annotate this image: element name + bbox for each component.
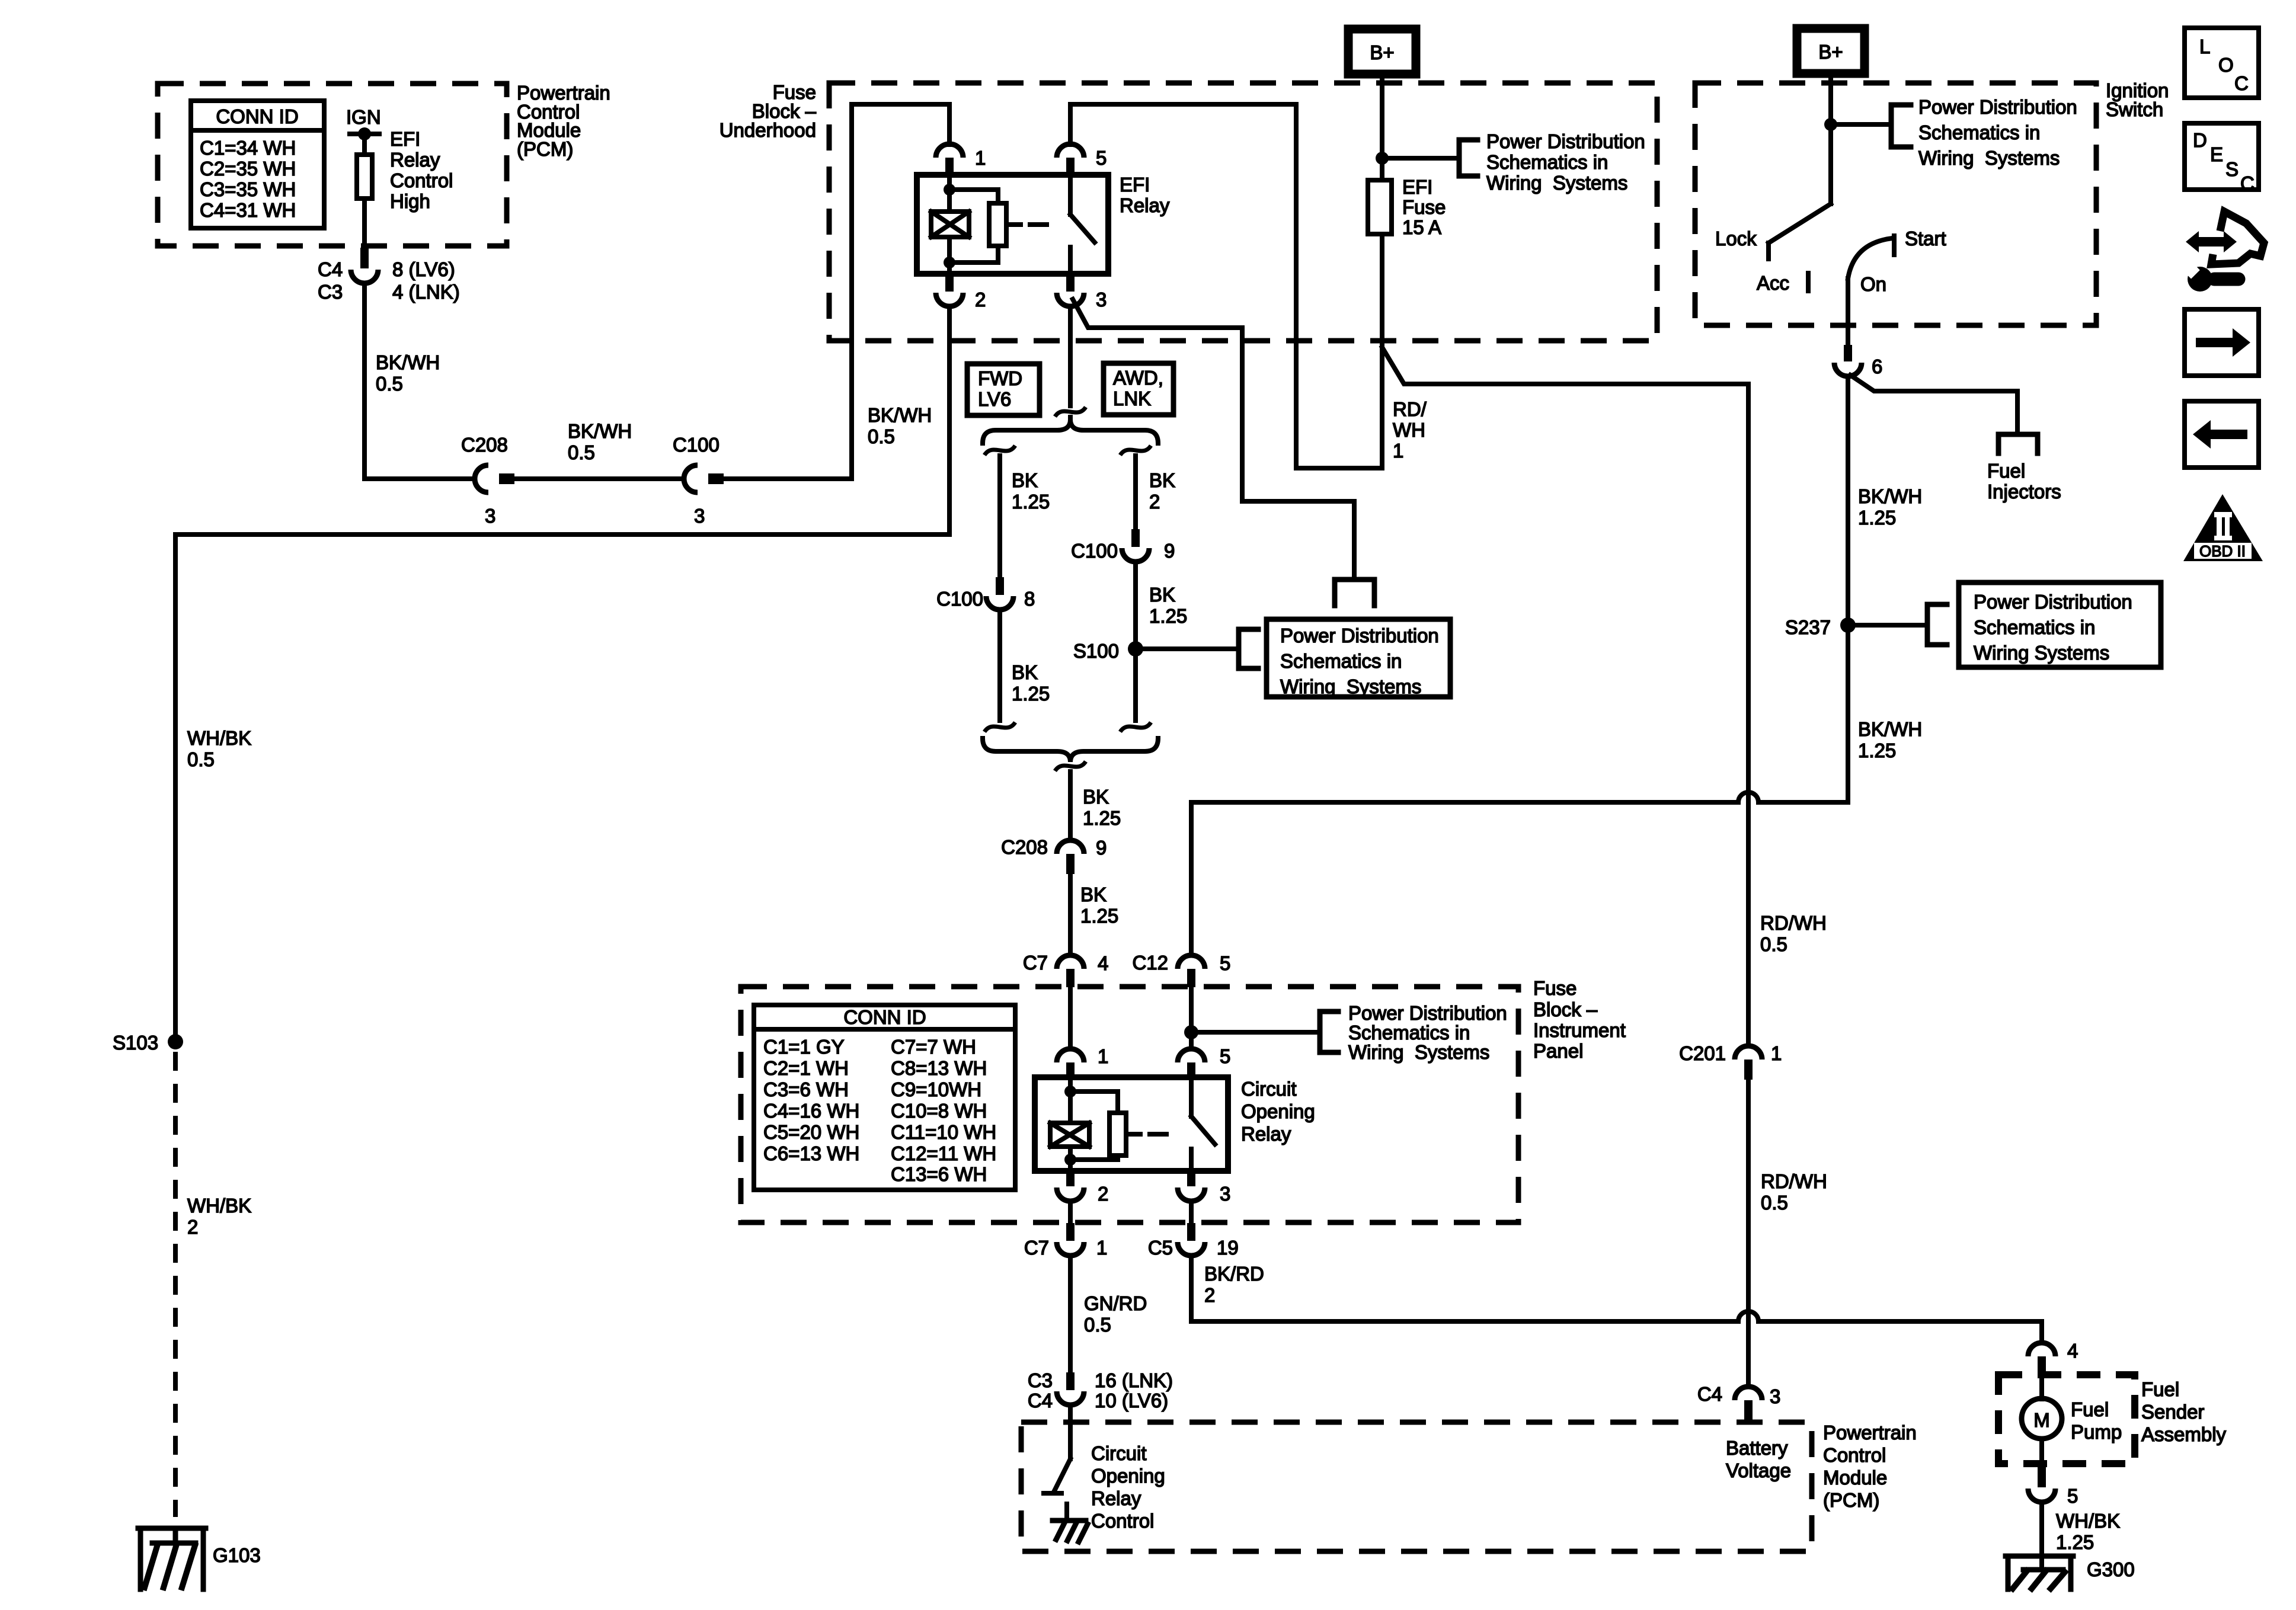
svg-text:0.5: 0.5 (1761, 1192, 1788, 1214)
svg-text:S: S (2225, 158, 2239, 180)
EFI Fuse label (1402, 176, 1446, 238)
right branch squiggle (1120, 446, 1151, 455)
svg-text:0.5: 0.5 (568, 441, 595, 463)
wire BK/WH 1.25 pin 6 to S237 (1846, 376, 1850, 802)
svg-text:C7=7 WH: C7=7 WH (891, 1036, 976, 1058)
svg-text:Relay: Relay (1120, 194, 1170, 216)
svg-text:C1=34 WH: C1=34 WH (200, 137, 296, 159)
connector EFI relay pin 3 (1057, 274, 1084, 306)
svg-text:OBD II: OBD II (2199, 542, 2246, 560)
wire brace to C208-9 (BK 1.25) (1068, 772, 1073, 840)
svg-text:9: 9 (1164, 540, 1175, 562)
svg-text:2: 2 (1149, 491, 1160, 513)
CO relay suppression resistor branch (1070, 1092, 1118, 1113)
wire EFI relay pin 2 to S103 (WH/BK 0.5) (175, 306, 949, 1035)
LOC navigation icon box (2185, 28, 2259, 98)
Power Distribution reference box (S237) (1959, 582, 2161, 667)
right branch bottom squiggle (1120, 722, 1151, 732)
wire tap to power distribution reference (1389, 156, 1459, 161)
wire left branch (BK 1.25) (997, 456, 1002, 577)
Ignition Switch dashed box (1695, 83, 2096, 325)
svg-text:Circuit: Circuit (1241, 1078, 1297, 1100)
svg-text:Schematics in: Schematics in (1918, 121, 2040, 143)
CO relay switch fixed contact (1189, 1077, 1194, 1116)
AWD LNK option box (1104, 363, 1173, 415)
ground G103 (138, 1528, 206, 1589)
wire B+ to EFI fuse (1380, 74, 1384, 180)
off-page bracket (S237 power distribution) (1927, 604, 1947, 645)
CO relay coil (crossed box) (1050, 1123, 1089, 1147)
svg-text:Fuse: Fuse (1533, 977, 1576, 999)
svg-text:GN/RD: GN/RD (1084, 1292, 1147, 1314)
svg-text:CONN ID: CONN ID (843, 1006, 926, 1028)
wire feed to EFI relay pin 1 (947, 104, 952, 145)
wire S237 down and left to C12-5 (1758, 633, 1848, 802)
Acc contact tick (1806, 273, 1811, 291)
svg-text:C3: C3 (318, 281, 343, 303)
connector C100 labels (673, 434, 720, 527)
connector C7 pin 4 labels (1023, 952, 1109, 974)
connector C208 pin 3 (in-line) (475, 465, 514, 492)
svg-text:(PCM): (PCM) (517, 138, 573, 160)
B+ terminal box (ignition switch) (1797, 28, 1865, 73)
connector C12 pin 5 (1178, 955, 1205, 987)
svg-text:S103: S103 (113, 1032, 158, 1054)
wire S237 to reference bracket (1856, 623, 1927, 628)
FWD LV6 option box (967, 364, 1040, 415)
svg-text:0.5: 0.5 (868, 425, 895, 447)
svg-text:Opening: Opening (1241, 1100, 1315, 1122)
back arrow icon box (2185, 401, 2259, 468)
resistor (EFI relay) (989, 203, 1006, 246)
svg-text:C13=6 WH: C13=6 WH (891, 1163, 987, 1185)
left branch squiggle (984, 446, 1015, 455)
svg-text:Injectors: Injectors (1987, 481, 2061, 502)
PCM bottom dashed box (1021, 1422, 1812, 1551)
svg-text:Fuel: Fuel (2141, 1378, 2179, 1400)
connector EFI relay pin 2 (936, 274, 963, 306)
svg-text:Power Distribution: Power Distribution (1918, 96, 2077, 118)
svg-text:Block –: Block – (1533, 998, 1598, 1020)
svg-text:C7: C7 (1023, 952, 1048, 974)
Fuel Sender Assembly label (2141, 1378, 2227, 1445)
svg-text:C1=1 GY: C1=1 GY (763, 1036, 845, 1058)
wire label RD/WH 0.5 (below C201) (1761, 1170, 1827, 1214)
connector C7 pin 4 (1057, 955, 1084, 987)
connector C100 pin 8 (986, 577, 1013, 610)
CONN ID table (instrument panel) (754, 1005, 1015, 1190)
svg-text:Control: Control (1823, 1444, 1886, 1466)
svg-text:FWD: FWD (978, 367, 1022, 389)
svg-text:C4: C4 (1028, 1390, 1053, 1411)
junction dot coil top (CO relay) (1064, 1086, 1076, 1097)
svg-text:1: 1 (1098, 1045, 1108, 1067)
wire resistor to connector C4/C3 (362, 199, 367, 248)
forward arrow icon box (2185, 309, 2259, 376)
wire WH/BK 1.25 to G300 (2039, 1502, 2044, 1570)
svg-text:Control: Control (390, 169, 453, 191)
connector C100 pin 8 labels (936, 588, 1035, 610)
ground G300 (2006, 1556, 2073, 1589)
connector C201 labels (1679, 1042, 1782, 1064)
wire label BK/WH 0.5 (PCM drop) (376, 351, 440, 395)
EFI relay suppression resistor branch (949, 190, 998, 203)
svg-text:2: 2 (187, 1216, 198, 1238)
upper option brace (983, 420, 1158, 443)
svg-text:BK/WH: BK/WH (868, 404, 932, 426)
svg-text:WH/BK: WH/BK (2056, 1510, 2120, 1532)
wire continues left to C12-5 drop (1191, 802, 1738, 955)
resistor branch bottom (CO relay) (1070, 1156, 1118, 1160)
svg-text:Lock: Lock (1715, 228, 1757, 249)
svg-text:4: 4 (1098, 952, 1108, 974)
svg-text:3: 3 (1770, 1385, 1780, 1407)
CONN ID table (PCM) (191, 101, 324, 228)
Battery Voltage label (1726, 1437, 1791, 1481)
svg-text:Sender: Sender (2141, 1401, 2204, 1423)
splice S100 (1128, 641, 1143, 657)
Fuel Injectors label (1987, 460, 2061, 502)
svg-text:C6=13 WH: C6=13 WH (763, 1142, 859, 1164)
circuit opening relay control switch blade (1054, 1459, 1070, 1492)
svg-text:LNK: LNK (1113, 388, 1151, 409)
svg-text:8: 8 (1024, 588, 1035, 610)
wire tap to reference bracket (1198, 1030, 1320, 1035)
wire IGN to resistor (362, 134, 367, 155)
Powertrain Control Module label (bottom) (1823, 1422, 1917, 1511)
svg-text:2: 2 (1204, 1284, 1215, 1306)
svg-text:C11=10 WH: C11=10 WH (891, 1121, 996, 1143)
svg-text:C: C (2240, 172, 2255, 194)
svg-text:Fuse: Fuse (1402, 196, 1446, 218)
svg-text:Relay: Relay (1091, 1487, 1141, 1509)
svg-text:5: 5 (1096, 147, 1107, 169)
svg-text:Relay: Relay (390, 149, 440, 171)
svg-text:1.25: 1.25 (1858, 507, 1896, 529)
svg-text:BK: BK (1083, 786, 1109, 808)
svg-text:4 (LNK): 4 (LNK) (392, 281, 460, 303)
wire coil bottom (947, 237, 952, 274)
svg-text:Underhood: Underhood (720, 119, 816, 141)
svg-text:1.25: 1.25 (1149, 605, 1187, 627)
CO relay coil wire bottom (1068, 1147, 1073, 1171)
svg-text:RD/WH: RD/WH (1760, 912, 1827, 934)
svg-text:C201: C201 (1679, 1042, 1726, 1064)
fuel pump motor M (2022, 1398, 2062, 1439)
svg-text:C100: C100 (936, 588, 983, 610)
svg-text:Fuel: Fuel (2071, 1398, 2109, 1420)
diagnostic icon: double arrow (2182, 212, 2264, 292)
svg-text:L: L (2199, 36, 2210, 57)
svg-text:S237: S237 (1785, 616, 1831, 638)
svg-text:C3: C3 (1028, 1369, 1053, 1391)
connector C4/C3 labels (318, 258, 460, 303)
off-page bracket (ignition power distribution) (1891, 105, 1911, 147)
EFI relay coil (crossed box) (931, 212, 969, 237)
svg-text:5: 5 (1220, 952, 1230, 974)
wire label BK 1.25 (left lower) (1012, 661, 1050, 705)
EFI Fuse 15 A (1368, 180, 1392, 234)
svg-text:C: C (2234, 72, 2249, 94)
Power Distribution reference text (ignition) (1918, 96, 2077, 169)
svg-text:1.25: 1.25 (1858, 740, 1896, 761)
svg-text:WH/BK: WH/BK (187, 1195, 251, 1217)
wire C7-4 into instrument panel block (1068, 987, 1073, 1049)
svg-text:Wiring Systems: Wiring Systems (1974, 642, 2109, 664)
ignition wiper arc (On position) (1848, 238, 1892, 279)
svg-text:High: High (390, 190, 430, 212)
Ignition Switch label (2106, 79, 2169, 120)
wire label GN/RD 0.5 (1084, 1292, 1147, 1336)
connector fuel sender pin 4 (2028, 1343, 2055, 1376)
wire B+ into ignition switch (1828, 73, 1833, 204)
svg-text:(PCM): (PCM) (1823, 1489, 1879, 1511)
svg-text:M: M (2033, 1409, 2050, 1431)
svg-text:C208: C208 (1001, 836, 1048, 858)
svg-text:3: 3 (694, 505, 705, 527)
wire label BK/WH 0.5 (C208-C100) (568, 420, 632, 463)
svg-text:Start: Start (1905, 228, 1946, 249)
svg-text:WH/BK: WH/BK (187, 727, 251, 749)
wire On contact to pin 6 (1846, 279, 1850, 345)
Circuit Opening Relay Control label (1091, 1442, 1165, 1532)
svg-text:0.5: 0.5 (1760, 933, 1787, 955)
svg-text:4: 4 (2067, 1340, 2078, 1362)
wire pin 6 branch to fuel injectors (1850, 375, 2017, 434)
EFI relay coil branch wire (947, 175, 952, 212)
svg-text:C5=20 WH: C5=20 WH (763, 1121, 859, 1143)
connector C100 pin 9 (1122, 529, 1149, 562)
wire motor to pin 5 (2039, 1439, 2044, 1467)
svg-text:C100: C100 (1071, 540, 1118, 562)
svg-text:E: E (2210, 143, 2223, 165)
svg-text:Module: Module (1823, 1467, 1887, 1489)
wire label BK 1.25 (to C208) (1083, 786, 1121, 829)
svg-text:C4: C4 (1697, 1383, 1722, 1405)
wire PCM to C208 (364, 476, 475, 481)
svg-text:Schematics in: Schematics in (1974, 616, 2095, 638)
Start contact tick (1892, 236, 1897, 255)
wire C100 to fuse block underhood (724, 104, 949, 479)
svg-text:1.25: 1.25 (1080, 905, 1118, 927)
lower option brace (983, 738, 1158, 762)
svg-text:C3=6 WH: C3=6 WH (763, 1078, 849, 1100)
wire RD/WH 1 diagonal exit (1382, 347, 1748, 1046)
svg-text:WH: WH (1393, 419, 1425, 441)
svg-text:B+: B+ (1370, 41, 1394, 63)
wire C100-8 down (BK 1.25) (997, 610, 1002, 721)
svg-text:BK: BK (1012, 469, 1038, 491)
svg-text:Pump: Pump (2071, 1421, 2122, 1443)
svg-text:Wiring Systems: Wiring Systems (1918, 147, 2060, 169)
svg-text:C10=8 WH: C10=8 WH (891, 1100, 987, 1122)
PCM module dashed box (Powertrain Control Module top-left) (158, 84, 507, 246)
svg-text:O: O (2218, 54, 2234, 76)
wire right branch (BK 2) (1133, 456, 1138, 529)
connector EFI relay pin 1 (936, 144, 963, 175)
svg-text:BK: BK (1149, 584, 1175, 606)
junction dot feed tap (1184, 1025, 1198, 1039)
svg-text:BK: BK (1080, 884, 1107, 905)
svg-text:Opening: Opening (1091, 1465, 1165, 1487)
junction dot ignition feed (1824, 118, 1837, 131)
svg-text:1.25: 1.25 (2056, 1531, 2094, 1553)
resistor EFI Relay Control High driver (inside PCM) (357, 155, 372, 199)
blade end tick (1044, 1491, 1061, 1496)
svg-text:Schematics in: Schematics in (1348, 1022, 1470, 1044)
svg-text:LV6: LV6 (978, 388, 1011, 410)
svg-text:RD/WH: RD/WH (1761, 1170, 1827, 1192)
svg-text:Power Distribution: Power Distribution (1486, 130, 1645, 152)
wire C208-9 to C7-4 (BK 1.25) (1068, 874, 1073, 955)
connector C12 pin 5 labels (1132, 952, 1230, 974)
wire label RD/WH 0.5 (above C201) (1760, 912, 1827, 955)
wire GN/RD 0.5 C7-1 to PCM (1068, 1256, 1073, 1372)
svg-text:5: 5 (2067, 1485, 2078, 1507)
node IGN terminal tick and junction (350, 127, 379, 140)
svg-text:1: 1 (1393, 440, 1403, 462)
connector C7 pin 1 labels (1024, 1237, 1108, 1259)
Power Distribution reference text (top) (1486, 130, 1645, 194)
connector EFI relay pin 5 (1057, 144, 1084, 175)
Fuse Block Underhood label (720, 81, 817, 141)
svg-text:1: 1 (975, 147, 986, 169)
svg-text:9: 9 (1096, 837, 1107, 859)
wire label BK/WH 0.5 (into fuse block) (868, 404, 932, 447)
svg-text:Schematics in: Schematics in (1486, 151, 1608, 173)
svg-text:BK/WH: BK/WH (376, 351, 440, 373)
wire hop over RD/WH vertical (1738, 1311, 1758, 1321)
connector ignition pin 6 (1834, 345, 1862, 376)
connector C4/C3 pin 8(LV6)/4(LNK) (351, 248, 378, 283)
Circuit Opening Relay label (1241, 1078, 1315, 1145)
wire label BK 1.25 (left upper) (1012, 469, 1050, 513)
EFI relay switch lower contact (1068, 247, 1073, 274)
svg-text:C4: C4 (318, 258, 343, 280)
Power Distribution reference box (S100) (1267, 619, 1450, 697)
svg-text:Wiring Systems: Wiring Systems (1280, 676, 1421, 697)
wire label BK/WH 1.25 (upper) (1858, 485, 1922, 529)
chassis ground glyph (PCM internal) (1053, 1521, 1088, 1542)
connector fuel sender pin 5 (2028, 1467, 2055, 1502)
connector C4 pin 3 (PCM battery voltage) (1735, 1387, 1762, 1422)
connector C100 pin 9 labels (1071, 540, 1175, 562)
svg-text:Wiring Systems: Wiring Systems (1348, 1041, 1489, 1063)
svg-text:C4=31 WH: C4=31 WH (200, 199, 296, 221)
svg-text:1.25: 1.25 (1083, 807, 1121, 829)
Fuse Block Instrument Panel dashed box (741, 987, 1518, 1222)
EFI relay switch fixed contact (1068, 175, 1073, 215)
wire label BK/WH 1.25 (lower) (1858, 718, 1922, 761)
wire C12-5 into block (1189, 987, 1194, 1049)
svg-text:On: On (1860, 273, 1886, 295)
svg-text:G103: G103 (213, 1544, 261, 1566)
svg-text:AWD,: AWD, (1113, 367, 1163, 389)
svg-text:C5: C5 (1148, 1237, 1173, 1259)
ignition switch feed diagonal to Lock (1769, 204, 1831, 243)
B+ terminal box (fuse block) (1348, 29, 1416, 74)
wire C208 to C100 (514, 476, 684, 481)
wire label WH/BK 2 (187, 1195, 251, 1238)
connector C7 pin 1 (1057, 1223, 1084, 1256)
mechanical link dashes (1006, 222, 1047, 227)
wire BK/WH 0.5 from PCM down (362, 283, 367, 479)
Fuse Block Instrument Panel label (1533, 977, 1626, 1062)
Fuel Pump label (2071, 1398, 2122, 1443)
wire squiggle to brace (1068, 417, 1073, 422)
wire label WH/BK 1.25 (2056, 1510, 2120, 1553)
connector C5 pin 19 (1178, 1223, 1205, 1256)
svg-text:Switch: Switch (2106, 98, 2163, 120)
DESC navigation icon box (2185, 123, 2259, 194)
connector CO relay pin 3 (1178, 1171, 1205, 1201)
svg-text:3: 3 (1220, 1183, 1230, 1205)
wire label WH/BK 0.5 (187, 727, 251, 770)
svg-text:BK: BK (1149, 469, 1175, 491)
svg-text:EFI: EFI (390, 128, 420, 150)
svg-text:Acc: Acc (1757, 272, 1789, 294)
svg-text:BK: BK (1012, 661, 1038, 683)
svg-text:Voltage: Voltage (1726, 1459, 1791, 1481)
svg-text:Schematics in: Schematics in (1280, 650, 1402, 672)
diagnostic icon: component outline (2211, 212, 2264, 264)
connector CO relay pin 2 (1057, 1171, 1084, 1201)
wire hop over RD/WH vertical (S237 run) (1738, 792, 1758, 802)
wire feed to EFI relay pin 5 (1068, 104, 1073, 145)
off-page bracket (power distribution, top) (1459, 140, 1478, 176)
svg-text:EFI: EFI (1402, 176, 1432, 198)
squiggle below lower brace (1055, 761, 1086, 771)
CO relay switch lower contact (1189, 1149, 1194, 1171)
junction dot B+ tap (1376, 152, 1389, 165)
wire C100-9 to S100 (BK 1.25) (1133, 562, 1138, 721)
wire EFI relay pin 3 branch to power distribution reference (1073, 299, 1354, 580)
wire pin 2 to C7-1 (1068, 1201, 1073, 1223)
svg-text:Panel: Panel (1533, 1040, 1583, 1062)
svg-text:BK/WH: BK/WH (568, 420, 632, 442)
svg-text:C100: C100 (673, 434, 720, 456)
option split squiggle (top) (1055, 407, 1086, 417)
svg-text:3: 3 (485, 505, 495, 527)
off-page bracket (pin3 branch, points down) (1335, 580, 1374, 606)
Fuse Block Underhood dashed box (829, 83, 1657, 341)
PCM module name label (517, 82, 610, 160)
wire label RD/WH 1 (1393, 398, 1427, 462)
svg-text:5: 5 (1220, 1045, 1230, 1067)
resistor branch bottom wire (949, 246, 998, 263)
wire pin 4 to motor (2039, 1376, 2044, 1399)
wire EFI relay pin 3 down (1068, 306, 1073, 406)
svg-text:16 (LNK): 16 (LNK) (1095, 1369, 1173, 1391)
wire BK/RD 2 to fuel pump (1191, 1256, 1738, 1321)
svg-text:C8=13 WH: C8=13 WH (891, 1057, 987, 1079)
diagnostic icon: wrench (2188, 267, 2212, 292)
connector C3/C4 pin 16(LNK)/10(LV6) (1057, 1372, 1084, 1405)
svg-text:15 A: 15 A (1402, 216, 1441, 238)
svg-text:1: 1 (1096, 1237, 1107, 1259)
connector C208 pin 9 labels (1001, 836, 1107, 859)
svg-text:0.5: 0.5 (376, 373, 403, 395)
connector CO relay pin 5 (1178, 1049, 1205, 1077)
connector C3/C4 labels (1028, 1369, 1173, 1411)
svg-text:C4=16 WH: C4=16 WH (763, 1100, 859, 1122)
EFI Relay Control High label (390, 128, 453, 212)
EFI Relay label (1120, 174, 1170, 216)
wire tap to power distribution reference (ignition) (1837, 122, 1891, 127)
svg-text:0.5: 0.5 (1084, 1314, 1111, 1336)
svg-text:C12=11 WH: C12=11 WH (891, 1142, 996, 1164)
svg-text:1: 1 (1771, 1042, 1782, 1064)
